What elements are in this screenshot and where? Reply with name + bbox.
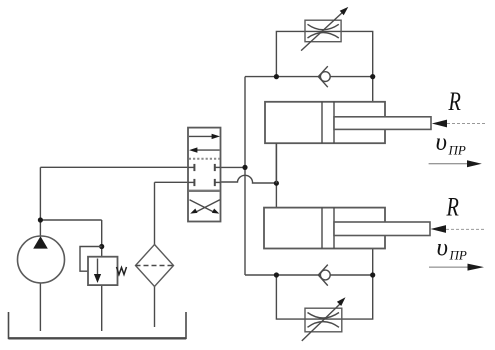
cylinder CYL1 upper xyxy=(265,102,431,143)
wire upper cylinder rod-end drop xyxy=(372,77,374,102)
wire upper cylinder cap-end drop xyxy=(275,143,277,183)
wire relief drain to tank xyxy=(101,285,103,331)
velocity arrow lower xyxy=(429,264,484,271)
junction B tee xyxy=(274,181,279,186)
wire A port stub xyxy=(221,166,246,168)
wire relief branch vertical xyxy=(101,220,103,257)
wire relief pilot loop xyxy=(80,247,102,272)
directional valve 4/3 xyxy=(188,128,221,222)
wire R reference line upper xyxy=(447,123,486,125)
relief valve xyxy=(88,257,127,285)
throttle TH1 adjustable xyxy=(301,7,348,51)
wire lower cylinder rod-end rise xyxy=(372,249,374,276)
wire P line horizontal to valve xyxy=(40,166,188,168)
wire B line vertical xyxy=(275,143,277,208)
throttle TH2 adjustable xyxy=(302,297,346,341)
wire top throttle loop xyxy=(276,31,372,76)
svg-text:υПР: υПР xyxy=(437,235,467,263)
junction bottom throttle right xyxy=(370,272,375,277)
wire R reference line lower xyxy=(446,228,484,230)
svg-text:υПР: υПР xyxy=(436,129,466,157)
wire T line vertical to filter xyxy=(154,182,156,244)
filter xyxy=(136,245,174,287)
check valve CV1 xyxy=(318,66,330,87)
svg-text:R: R xyxy=(446,193,459,222)
pump P1 xyxy=(18,236,65,283)
wire relief branch horizontal xyxy=(40,219,101,221)
junction top throttle right xyxy=(370,74,375,79)
wire pump outlet vertical xyxy=(39,167,41,236)
load arrow R upper xyxy=(432,120,447,128)
wire filter drain to tank xyxy=(154,287,156,328)
velocity arrow upper xyxy=(429,160,482,167)
junction A tee xyxy=(242,165,247,170)
check valve CV2 xyxy=(318,265,330,286)
wire A line vertical xyxy=(244,77,246,275)
tank xyxy=(9,312,187,338)
load arrow R lower xyxy=(431,225,447,233)
wire bottom throttle loop xyxy=(276,275,372,319)
wire pump suction to tank xyxy=(39,283,41,331)
wire B line with crossover hump xyxy=(221,175,277,183)
junction relief pilot tee xyxy=(99,244,104,249)
wire top flow-control line xyxy=(245,76,373,78)
cylinder CYL2 lower xyxy=(264,208,430,249)
junction pump/relief tee xyxy=(38,217,43,222)
wire bottom flow-control line xyxy=(245,274,373,276)
junction bottom throttle left xyxy=(274,272,279,277)
wire T line horizontal to valve xyxy=(155,181,189,183)
junction top throttle left xyxy=(274,74,279,79)
svg-text:R: R xyxy=(448,88,461,117)
